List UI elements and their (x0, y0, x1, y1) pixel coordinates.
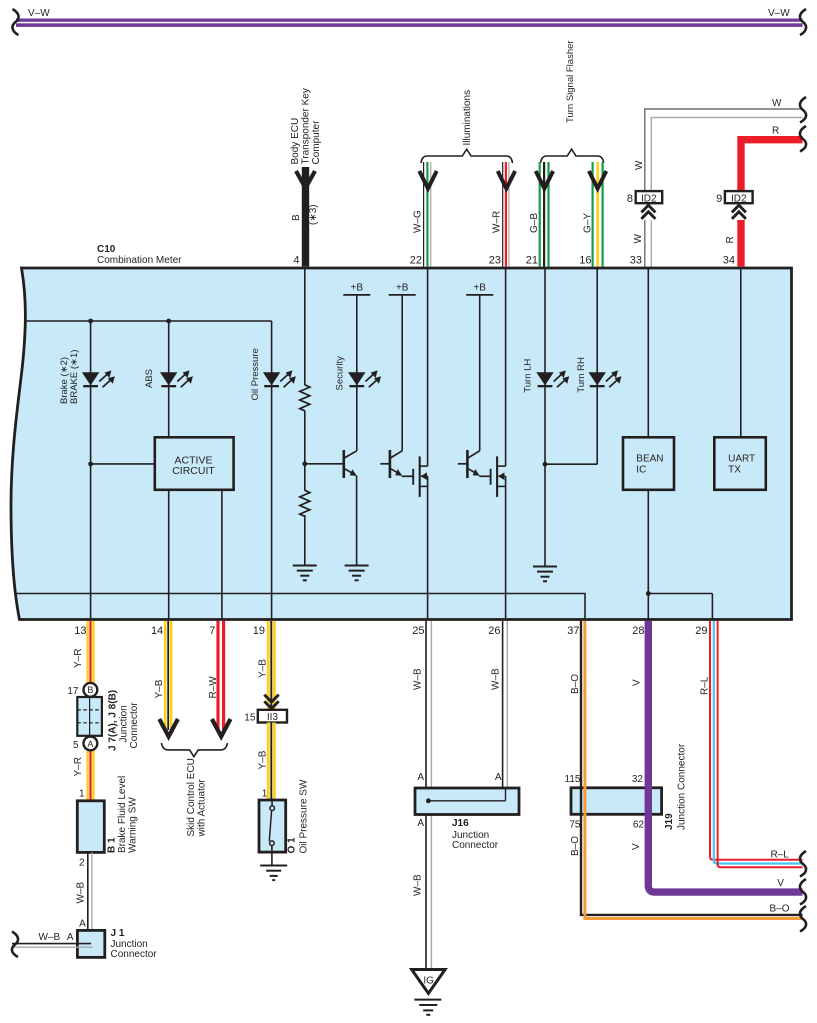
svg-text:UART: UART (728, 453, 755, 464)
wire Y-B (II3 to O1) (257, 723, 271, 801)
svg-text:21: 21 (526, 255, 538, 267)
connector ID2 pin 8 (627, 191, 662, 266)
resistor R1 (300, 385, 310, 411)
svg-text:IC: IC (636, 464, 646, 475)
svg-text:Brake (∗2): Brake (∗2) (59, 357, 70, 404)
ground (security emitter) (345, 566, 369, 581)
svg-text:Y–R: Y–R (73, 649, 84, 668)
wire pin 33 to BEAN IC (647, 268, 649, 437)
svg-text:B: B (291, 214, 302, 221)
wire G-Y (pin 16) (579, 162, 606, 267)
transistor Q2 (illumination driver 1) (380, 450, 413, 478)
svg-text:Security: Security (334, 356, 345, 391)
wire W (to pin 33, white wire drawn as twin lines) (633, 97, 806, 267)
svg-text:Brake Fluid Level: Brake Fluid Level (117, 776, 128, 853)
svg-text:R–L: R–L (771, 849, 790, 860)
svg-text:1: 1 (262, 789, 268, 800)
svg-text:Connector: Connector (129, 702, 140, 749)
wire R (to pin 34) (725, 126, 806, 267)
wire pin 22 to pin 25 (through M1) (427, 268, 429, 620)
svg-text:Computer: Computer (311, 120, 322, 165)
node junction ABS bus (166, 319, 171, 324)
svg-text:115: 115 (565, 774, 581, 785)
wire bus (LED feed) (25, 320, 272, 322)
svg-text:+B: +B (473, 283, 486, 294)
svg-text:Y–R: Y–R (73, 757, 84, 776)
svg-text:32: 32 (632, 774, 644, 785)
node junction turn common (543, 462, 548, 467)
LED Turn RH indicator (576, 357, 621, 393)
wire branch to pin 29 (648, 594, 712, 620)
wire turn RH (pin 16 internal) (545, 268, 597, 464)
svg-text:A: A (67, 932, 74, 943)
svg-text:ID2: ID2 (731, 193, 747, 204)
svg-text:W–B: W–B (491, 668, 502, 690)
wire B-O (pin 37 out) (570, 621, 806, 932)
wire W-B (B1 to J1) (76, 852, 92, 948)
svg-text:TX: TX (728, 464, 741, 475)
svg-text:Y–B: Y–B (257, 750, 268, 769)
svg-text:25: 25 (412, 625, 424, 637)
transistor Q1 (security driver) (344, 450, 357, 566)
svg-text:13: 13 (74, 625, 86, 637)
svg-text:Turn RH: Turn RH (576, 357, 587, 393)
wire R-L (pin 29 out) (700, 621, 806, 877)
svg-text:1: 1 (79, 789, 85, 800)
svg-text:CIRCUIT: CIRCUIT (172, 465, 215, 477)
svg-text:19: 19 (253, 625, 265, 637)
svg-text:Connector: Connector (452, 840, 499, 851)
wire W-B (pin 25 to J16 and IG) (413, 621, 432, 970)
svg-text:2: 2 (79, 858, 85, 869)
svg-text:Skid Control ECU: Skid Control ECU (186, 758, 197, 836)
svg-text:Illuminations: Illuminations (462, 90, 473, 146)
brace Illuminations (421, 90, 513, 163)
svg-text:R: R (772, 126, 779, 137)
svg-text:V–W: V–W (768, 8, 790, 19)
svg-text:Oil Pressure: Oil Pressure (250, 348, 261, 400)
connector II3 (pin 15) (244, 710, 287, 724)
LED Brake indicator (59, 350, 115, 404)
svg-text:37: 37 (567, 625, 579, 637)
svg-text:G–Y: G–Y (582, 213, 593, 233)
svg-text:W–B: W–B (39, 932, 61, 943)
component B1 Brake Fluid Level Warning SW (77, 776, 138, 853)
wire W-B (J1 to harness, horizontal) (12, 932, 93, 958)
connector C10 Combination Meter (box) (11, 244, 792, 620)
node junction brake / active circuit (88, 462, 93, 467)
connector J16 junction connector (415, 788, 519, 851)
MOSFET M2 (illumination dimmer 2) (491, 456, 506, 497)
svg-text:A: A (417, 818, 424, 829)
resistor R2 (300, 490, 310, 516)
svg-text:Junction: Junction (118, 705, 129, 742)
svg-text:Turn LH: Turn LH (523, 359, 534, 393)
svg-text:W–G: W–G (413, 210, 424, 233)
power +B (illumination driver 1) (389, 283, 416, 451)
svg-text:O 1: O 1 (287, 837, 298, 854)
svg-text:V–W: V–W (28, 8, 50, 19)
node junction BEAN output (646, 591, 651, 596)
wire B from Body ECU Transponder Key Computer (pin 4) (290, 88, 322, 266)
wire pin 34 to UART TX (740, 268, 742, 437)
svg-text:+B: +B (351, 283, 364, 294)
svg-text:J 7(A), J 8(B): J 7(A), J 8(B) (108, 690, 119, 751)
svg-text:+B: +B (396, 283, 409, 294)
svg-text:14: 14 (151, 625, 163, 637)
box BEAN IC (623, 437, 674, 490)
svg-text:Y–B: Y–B (257, 659, 268, 678)
svg-text:A: A (495, 772, 502, 783)
connector J19 junction connector (565, 743, 688, 830)
svg-text:V: V (632, 679, 643, 686)
svg-text:B–O: B–O (770, 904, 790, 915)
connector ID2 pin 9 (716, 191, 752, 266)
svg-text:17: 17 (67, 686, 79, 697)
svg-text:33: 33 (630, 255, 642, 267)
svg-text:W–B: W–B (413, 668, 424, 690)
wire pin 23 to pin 26 (through M2) (505, 268, 507, 620)
svg-text:with Actuator: with Actuator (196, 779, 207, 838)
wire bus to pin 37 (15, 594, 586, 620)
svg-text:Junction Connector: Junction Connector (677, 743, 688, 830)
wire R-W (pin 7 to skid control ECU) (208, 621, 230, 737)
svg-text:23: 23 (489, 255, 501, 267)
svg-text:Warning SW: Warning SW (127, 797, 138, 853)
svg-text:W: W (634, 160, 645, 170)
ground (B chain) (293, 566, 317, 581)
node junction base divider (302, 461, 307, 466)
svg-text:V: V (777, 878, 784, 889)
svg-text:R–L: R–L (700, 676, 711, 695)
svg-text:B–O: B–O (570, 674, 581, 694)
svg-text:V: V (631, 843, 642, 850)
svg-text:W–R: W–R (491, 211, 502, 233)
svg-text:5: 5 (73, 740, 79, 751)
svg-text:15: 15 (244, 713, 256, 724)
wire oil pressure branch (pin 19) (271, 321, 273, 620)
svg-text:Combination Meter: Combination Meter (97, 255, 182, 266)
svg-text:(∗3): (∗3) (308, 204, 319, 225)
ground (turn signals) (533, 567, 557, 582)
connector J7(A) J8(B) junction connector (67, 683, 139, 751)
LED Turn LH indicator (523, 359, 570, 393)
svg-text:W–B: W–B (76, 882, 87, 904)
svg-text:26: 26 (488, 625, 500, 637)
svg-text:Connector: Connector (111, 949, 158, 960)
svg-text:J 1: J 1 (111, 928, 125, 939)
svg-text:75: 75 (569, 820, 581, 831)
svg-text:II3: II3 (267, 712, 279, 723)
svg-text:7: 7 (209, 625, 215, 637)
LED ABS indicator (144, 369, 193, 388)
svg-text:C10: C10 (97, 244, 116, 255)
ground IG (412, 970, 445, 1015)
component O1 Oil Pressure SW (259, 779, 310, 865)
svg-text:B: B (87, 685, 93, 695)
svg-text:16: 16 (579, 255, 591, 267)
svg-text:28: 28 (632, 625, 644, 637)
wire Y-B (pin 14 to skid control ECU) (154, 621, 178, 737)
svg-text:ID2: ID2 (641, 193, 657, 204)
connector J1 junction connector (77, 928, 157, 960)
LED Security indicator (334, 356, 381, 391)
svg-text:A: A (417, 772, 424, 783)
wire Y-R (pin 13 to B1) (73, 621, 90, 801)
svg-text:A: A (87, 739, 93, 749)
node junction brake bus (88, 319, 93, 324)
svg-text:J16: J16 (452, 818, 469, 829)
svg-text:R: R (725, 236, 736, 243)
svg-text:62: 62 (633, 820, 645, 831)
svg-text:ABS: ABS (144, 369, 155, 388)
wire pin 7 from active circuit (221, 490, 223, 620)
transistor Q3 (illumination driver 2) (458, 450, 491, 478)
svg-text:IG: IG (423, 976, 434, 987)
svg-text:9: 9 (716, 193, 722, 205)
wire ABS branch (pin 14) (168, 321, 170, 620)
svg-text:Oil Pressure SW: Oil Pressure SW (299, 779, 310, 853)
svg-text:R–W: R–W (208, 676, 219, 699)
svg-text:BEAN: BEAN (636, 453, 663, 464)
svg-text:Transponder Key: Transponder Key (301, 88, 312, 164)
svg-text:Y–B: Y–B (154, 679, 165, 698)
power +B (illumination driver 2) (466, 283, 493, 451)
svg-text:Turn Signal Flasher: Turn Signal Flasher (565, 40, 576, 123)
svg-text:BRAKE (∗1): BRAKE (∗1) (69, 350, 80, 404)
svg-text:B–O: B–O (570, 836, 581, 856)
wire brake branch (pin 13) (91, 321, 155, 620)
wire W-G (pin 22) (410, 162, 437, 267)
svg-text:G–B: G–B (529, 213, 540, 233)
wire V (pin 28 out) (631, 621, 806, 905)
wire Y-B (pin 19 to II3) (257, 621, 278, 709)
ground (O1) (260, 866, 287, 881)
svg-text:29: 29 (695, 625, 707, 637)
svg-text:J19: J19 (664, 813, 675, 830)
power +B (security) (343, 283, 370, 451)
wire G-B (pin 21) (526, 162, 553, 267)
wire B internal (pin 4 chain) (305, 268, 343, 566)
wire W-B (pin 26 to J16) (491, 621, 508, 788)
brace Turn Signal Flasher (541, 40, 604, 163)
svg-text:A: A (79, 919, 86, 930)
svg-text:W: W (772, 98, 782, 109)
svg-text:Body ECU: Body ECU (290, 118, 301, 165)
wire BEAN IC to pin 28 (647, 490, 649, 620)
brace Skid Control ECU with Actuator (161, 743, 227, 838)
wire turn LH (pin 21 internal) (544, 268, 546, 566)
svg-text:34: 34 (723, 255, 735, 267)
box ACTIVE CIRCUIT (155, 437, 234, 490)
LED Oil Pressure indicator (250, 348, 296, 400)
svg-text:4: 4 (293, 255, 299, 267)
svg-text:22: 22 (410, 255, 422, 267)
svg-text:8: 8 (627, 193, 633, 205)
wire V-W (top bus) (12, 8, 806, 35)
MOSFET M1 (illumination dimmer) (413, 456, 427, 497)
box UART TX (714, 437, 766, 490)
svg-text:W–B: W–B (413, 874, 424, 896)
wire W-R (pin 23) (489, 162, 515, 267)
svg-text:W: W (633, 234, 644, 244)
wire W-B (J16 to IG) label (413, 874, 424, 896)
